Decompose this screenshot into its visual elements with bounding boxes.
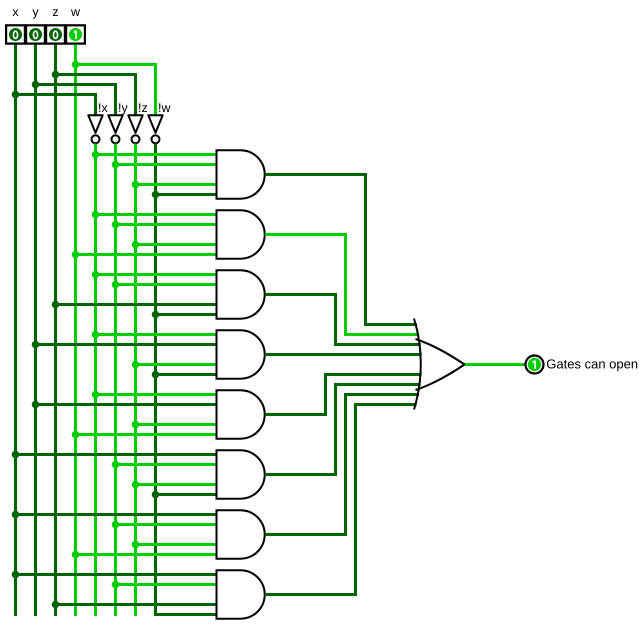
AND gate A5 (217, 390, 265, 438)
input pin w (66, 25, 85, 43)
junction y at (35.5,404.5) (32, 401, 40, 409)
label x (13, 9, 19, 16)
label !y (119, 103, 128, 114)
junction y at (35.5,84.5) (32, 81, 40, 89)
junction !w at (155.5,194.5) (152, 191, 160, 199)
wire AND5 input from y (36, 403, 217, 406)
junction !z at (135.5,544.5) (132, 541, 140, 549)
junction !z at (135.5,364.5) (132, 361, 140, 369)
wire AND5 input from !z (136, 423, 217, 426)
wire !x vertical (94, 144, 97, 617)
wire AND8 input from x (16, 573, 217, 576)
wire AND2 input from !z (136, 243, 217, 246)
wire AND7 output to OR (265, 395, 419, 535)
junction x at (15.5,94.5) (12, 91, 20, 99)
label w (71, 9, 80, 16)
wire !z vertical (134, 144, 137, 617)
OR gate U9 (414, 319, 465, 410)
NOT gate !x (88, 115, 102, 143)
wire AND1 input from !y (116, 163, 217, 166)
wire y to !y elbow (36, 85, 116, 117)
label !w (159, 103, 170, 112)
junction z at (55.5,304.5) (52, 301, 60, 309)
wire AND2 input from !y (116, 223, 217, 226)
wire AND6 input from !y (116, 463, 217, 466)
wire AND8 input from !w (156, 613, 217, 616)
wire AND6 input from !z (136, 483, 217, 486)
junction z at (55.5,604.5) (52, 601, 60, 609)
AND gate A2 (217, 210, 265, 258)
junction w at (75.5,64.5) (72, 61, 80, 69)
wire AND5 input from !x (96, 393, 217, 396)
wire AND7 input from w (76, 553, 217, 556)
wire AND3 input from z (56, 303, 217, 306)
NOT gate !y (108, 115, 122, 143)
input pin z (46, 25, 65, 43)
junction x at (15.5,454.5) (12, 451, 20, 459)
junction !y at (115.5,164.5) (112, 161, 120, 169)
wire OR output (465, 363, 526, 366)
junction !w at (155.5,494.5) (152, 491, 160, 499)
label z (53, 9, 58, 16)
junction y at (35.5,344.5) (32, 341, 40, 349)
label !z (139, 103, 147, 112)
junction x at (15.5,574.5) (12, 571, 20, 579)
wire AND5 output to OR (265, 375, 422, 415)
wire AND2 output to OR (265, 235, 419, 335)
junction !x at (95.5,334.5) (92, 331, 100, 339)
wire AND4 input from !x (96, 333, 217, 336)
AND gate A7 (217, 510, 265, 558)
wire AND3 output to OR (265, 295, 421, 345)
wire AND2 input from !x (96, 213, 217, 216)
wire AND3 input from !x (96, 273, 217, 276)
wire AND4 input from !w (156, 373, 217, 376)
wire w vertical (74, 45, 77, 617)
wire AND1 input from !z (136, 183, 217, 186)
AND gate A6 (217, 450, 265, 498)
label y (32, 9, 38, 18)
wire z vertical (54, 45, 57, 617)
wire AND5 input from w (76, 433, 217, 436)
wire w to !w elbow (76, 65, 156, 117)
wire AND4 input from !z (136, 363, 217, 366)
AND gate A4 (217, 330, 265, 378)
wire !w vertical (154, 144, 157, 617)
input pin x (6, 25, 25, 43)
junction !z at (135.5,424.5) (132, 421, 140, 429)
wire AND1 output to OR (265, 175, 417, 325)
junction z at (55.5,74.5) (52, 71, 60, 79)
junction !y at (115.5,284.5) (112, 281, 120, 289)
junction !y at (115.5,224.5) (112, 221, 120, 229)
junction w at (75.5,554.5) (72, 551, 80, 559)
wire AND7 input from x (16, 513, 217, 516)
junction !y at (115.5,524.5) (112, 521, 120, 529)
input pin y (26, 25, 45, 43)
junction !w at (155.5,374.5) (152, 371, 160, 379)
junction !x at (95.5,214.5) (92, 211, 100, 219)
AND gate A1 (217, 150, 265, 198)
wire z to !z elbow (56, 75, 136, 117)
junction !y at (115.5,584.5) (112, 581, 120, 589)
wire x to !x elbow (16, 95, 96, 117)
junction !w at (155.5,314.5) (152, 311, 160, 319)
junction !z at (135.5,244.5) (132, 241, 140, 249)
junction !y at (115.5,464.5) (112, 461, 120, 469)
NOT gate !z (128, 115, 142, 143)
wire AND8 input from !y (116, 583, 217, 586)
wire AND6 input from !w (156, 493, 217, 496)
junction !z at (135.5,184.5) (132, 181, 140, 189)
wire y vertical (34, 45, 37, 617)
wire AND4 output to OR (265, 353, 422, 356)
junction !z at (135.5,484.5) (132, 481, 140, 489)
wire AND7 input from !z (136, 543, 217, 546)
AND gate A3 (217, 270, 265, 318)
wire AND6 output to OR (265, 385, 421, 475)
junction w at (75.5,254.5) (72, 251, 80, 259)
junction w at (75.5,434.5) (72, 431, 80, 439)
wire x vertical (14, 45, 17, 617)
wire AND2 input from w (76, 253, 217, 256)
wire AND8 input from z (56, 603, 217, 606)
wire !y vertical (114, 144, 117, 617)
AND gate A8 (217, 570, 265, 618)
label !x (99, 103, 107, 112)
wire AND6 input from x (16, 453, 217, 456)
wire AND3 input from !w (156, 313, 217, 316)
junction !x at (95.5,394.5) (92, 391, 100, 399)
junction !x at (95.5,274.5) (92, 271, 100, 279)
junction !x at (95.5,154.5) (92, 151, 100, 159)
wire AND1 input from !x (96, 153, 217, 156)
wire AND3 input from !y (116, 283, 217, 286)
junction x at (15.5,514.5) (12, 511, 20, 519)
NOT gate !w (148, 115, 162, 143)
output pin Gates can open (526, 356, 544, 374)
label Gates can open (547, 359, 637, 371)
wire AND4 input from y (36, 343, 217, 346)
wire AND7 input from !y (116, 523, 217, 526)
wire AND1 input from !w (156, 193, 217, 196)
wire AND8 output to OR (265, 405, 417, 595)
